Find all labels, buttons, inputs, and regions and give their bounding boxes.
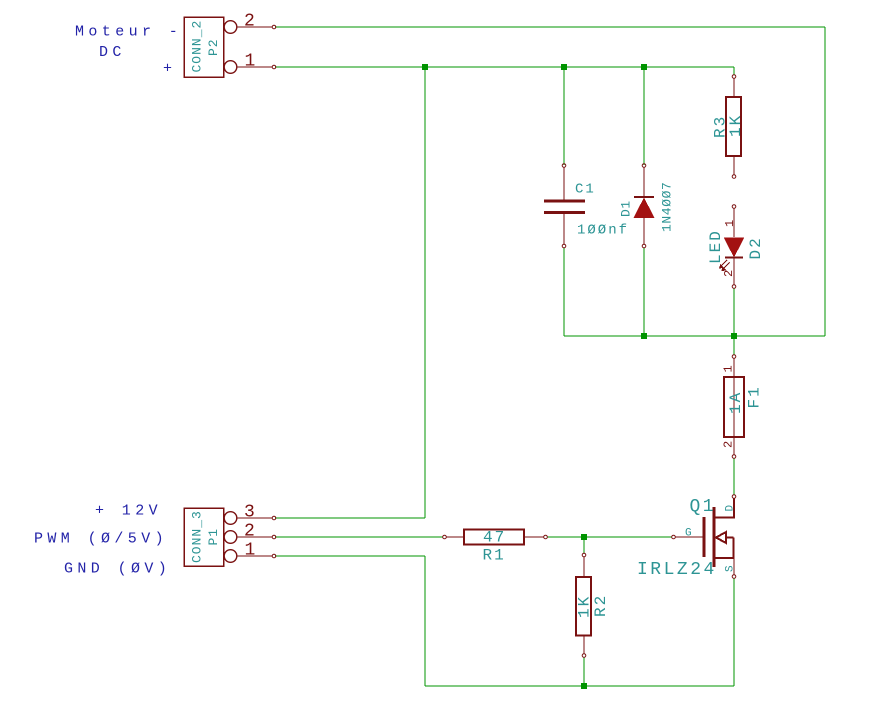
P2 value P2 xyxy=(206,38,221,56)
label PWM (0/5V) xyxy=(34,531,168,548)
svg-text:IRLZ24: IRLZ24 xyxy=(637,560,717,580)
svg-text:2: 2 xyxy=(244,522,255,542)
P1 pin 2 line xyxy=(237,535,276,539)
P2 pin 1 line xyxy=(237,65,276,69)
Q1 pin name G xyxy=(685,528,692,540)
wire net +12V horizontal xyxy=(275,66,734,68)
D1 value 1N4007 xyxy=(660,182,675,232)
wire D1 top xyxy=(643,67,645,165)
wire C1 bottom xyxy=(563,248,565,336)
junction +12V/left vertical xyxy=(422,64,428,70)
R1 value 47 xyxy=(483,529,506,547)
wire R1 to gate xyxy=(547,536,672,538)
wire PWM to R1 xyxy=(275,536,443,538)
P1 pin 1 line xyxy=(237,554,276,558)
wire F1 to Q1 drain xyxy=(733,458,735,495)
connector P2 body xyxy=(184,17,237,77)
wire bus to F1 xyxy=(733,336,735,355)
svg-text:3: 3 xyxy=(244,503,255,523)
fuse F1 xyxy=(724,355,744,459)
svg-text:1A: 1A xyxy=(727,391,745,414)
R2 reference xyxy=(592,594,610,617)
svg-text:LED: LED xyxy=(707,229,725,264)
junction +12V/C1 xyxy=(561,64,567,70)
wire GND left vertical xyxy=(424,556,426,686)
svg-text:1: 1 xyxy=(722,365,736,372)
P1 pin 3 line xyxy=(237,516,276,520)
svg-text:P2: P2 xyxy=(206,38,221,56)
diode D1 xyxy=(634,164,654,248)
svg-text:F1: F1 xyxy=(746,385,764,408)
R3 reference xyxy=(712,115,730,138)
Q1 value IRLZ24 xyxy=(637,560,717,580)
wire LED bottom xyxy=(733,288,735,336)
Q1 reference xyxy=(690,497,717,517)
R3 value 1K xyxy=(727,114,745,137)
connector P1 body xyxy=(184,508,237,566)
resistor R3 xyxy=(726,75,741,179)
D2 value xyxy=(747,236,765,259)
P2 pin number 2 xyxy=(244,12,255,32)
wire Q1 source to GND bus xyxy=(733,578,735,686)
svg-text:GND (ØV): GND (ØV) xyxy=(64,561,171,578)
svg-text:1K: 1K xyxy=(576,595,594,618)
F1 value 1A xyxy=(727,391,745,414)
D2 reference LED xyxy=(707,229,725,264)
svg-text:D2: D2 xyxy=(747,236,765,259)
wire P1 pin1 horizontal xyxy=(275,555,425,557)
svg-text:1N4ØØ7: 1N4ØØ7 xyxy=(660,182,675,232)
P1 pin number 1 xyxy=(245,541,256,561)
junction bus/D1 xyxy=(641,333,647,339)
LED D2 xyxy=(719,205,744,289)
svg-text:S: S xyxy=(725,565,737,572)
svg-text:1ØØnf: 1ØØnf xyxy=(577,223,629,239)
R2 value 1K xyxy=(576,595,594,618)
label plus xyxy=(163,61,176,78)
wire D1 bottom xyxy=(643,248,645,336)
svg-text:R2: R2 xyxy=(592,594,610,617)
junction GND bus/R2 xyxy=(581,683,587,689)
svg-text:+ 12V: + 12V xyxy=(95,503,162,520)
svg-text:+: + xyxy=(163,61,176,78)
wire P1 pin3 horizontal xyxy=(275,517,425,519)
svg-text:Moteur -: Moteur - xyxy=(75,24,182,41)
svg-text:C1: C1 xyxy=(575,182,596,198)
P1 pin number 3 xyxy=(244,503,255,523)
C1 reference xyxy=(575,182,596,198)
P1 pin number 2 xyxy=(244,522,255,542)
F1 pin 1 number xyxy=(722,365,736,372)
P2 pin 2 line xyxy=(237,25,276,29)
wire flyback bus horizontal xyxy=(564,335,825,337)
P1 value P1 xyxy=(206,528,221,546)
wire net Moteur- top horizontal xyxy=(275,26,825,28)
svg-text:Q1: Q1 xyxy=(690,497,717,517)
label Moteur - xyxy=(75,24,182,41)
wire +12V left vertical xyxy=(424,67,426,518)
junction bus/LED-F1 xyxy=(731,333,737,339)
svg-text:2: 2 xyxy=(722,441,736,448)
junction +12V/D1 xyxy=(641,64,647,70)
Q1 pin name D xyxy=(725,505,737,512)
junction gate node xyxy=(581,534,587,540)
P2 reference CONN_2 xyxy=(189,20,204,73)
wire to R3 top xyxy=(733,67,735,75)
svg-text:CONN_2: CONN_2 xyxy=(189,20,204,73)
P1 reference CONN_3 xyxy=(189,510,204,563)
P2 pin number 1 xyxy=(245,52,256,72)
svg-text:1: 1 xyxy=(245,541,256,561)
svg-text:1: 1 xyxy=(723,220,737,227)
F1 pin 2 number xyxy=(722,441,736,448)
D1 reference xyxy=(619,200,634,217)
svg-text:2: 2 xyxy=(722,270,736,277)
F1 reference xyxy=(746,385,764,408)
wire C1 top xyxy=(563,67,565,165)
wire net Moteur- right vertical xyxy=(824,27,826,336)
label DC xyxy=(99,44,126,61)
svg-text:D1: D1 xyxy=(619,200,634,217)
svg-text:1K: 1K xyxy=(727,114,745,137)
transistor Q1 xyxy=(672,495,736,579)
resistor R2 xyxy=(576,553,591,657)
resistor R1 xyxy=(443,530,548,545)
wire gate node to R2 xyxy=(583,537,585,553)
svg-text:R1: R1 xyxy=(483,547,506,565)
svg-text:D: D xyxy=(725,505,737,512)
svg-text:PWM (Ø/5V): PWM (Ø/5V) xyxy=(34,531,168,548)
label +12V xyxy=(95,503,162,520)
R1 reference xyxy=(483,547,506,565)
svg-text:DC: DC xyxy=(99,44,126,61)
capacitor C1 xyxy=(544,164,585,248)
svg-text:1: 1 xyxy=(245,52,256,72)
svg-text:G: G xyxy=(685,528,692,540)
Q1 pin name S xyxy=(725,565,737,572)
svg-text:47: 47 xyxy=(483,529,506,547)
svg-text:2: 2 xyxy=(244,12,255,32)
LED pin 2 number xyxy=(722,270,736,277)
svg-text:CONN_3: CONN_3 xyxy=(189,510,204,563)
wire GND bus horizontal xyxy=(425,685,734,687)
wire R2 to GND bus xyxy=(583,657,585,686)
label GND (0V) xyxy=(64,561,171,578)
LED pin 1 number xyxy=(723,220,737,227)
svg-text:P1: P1 xyxy=(206,528,221,546)
C1 value 100nf xyxy=(577,223,629,239)
